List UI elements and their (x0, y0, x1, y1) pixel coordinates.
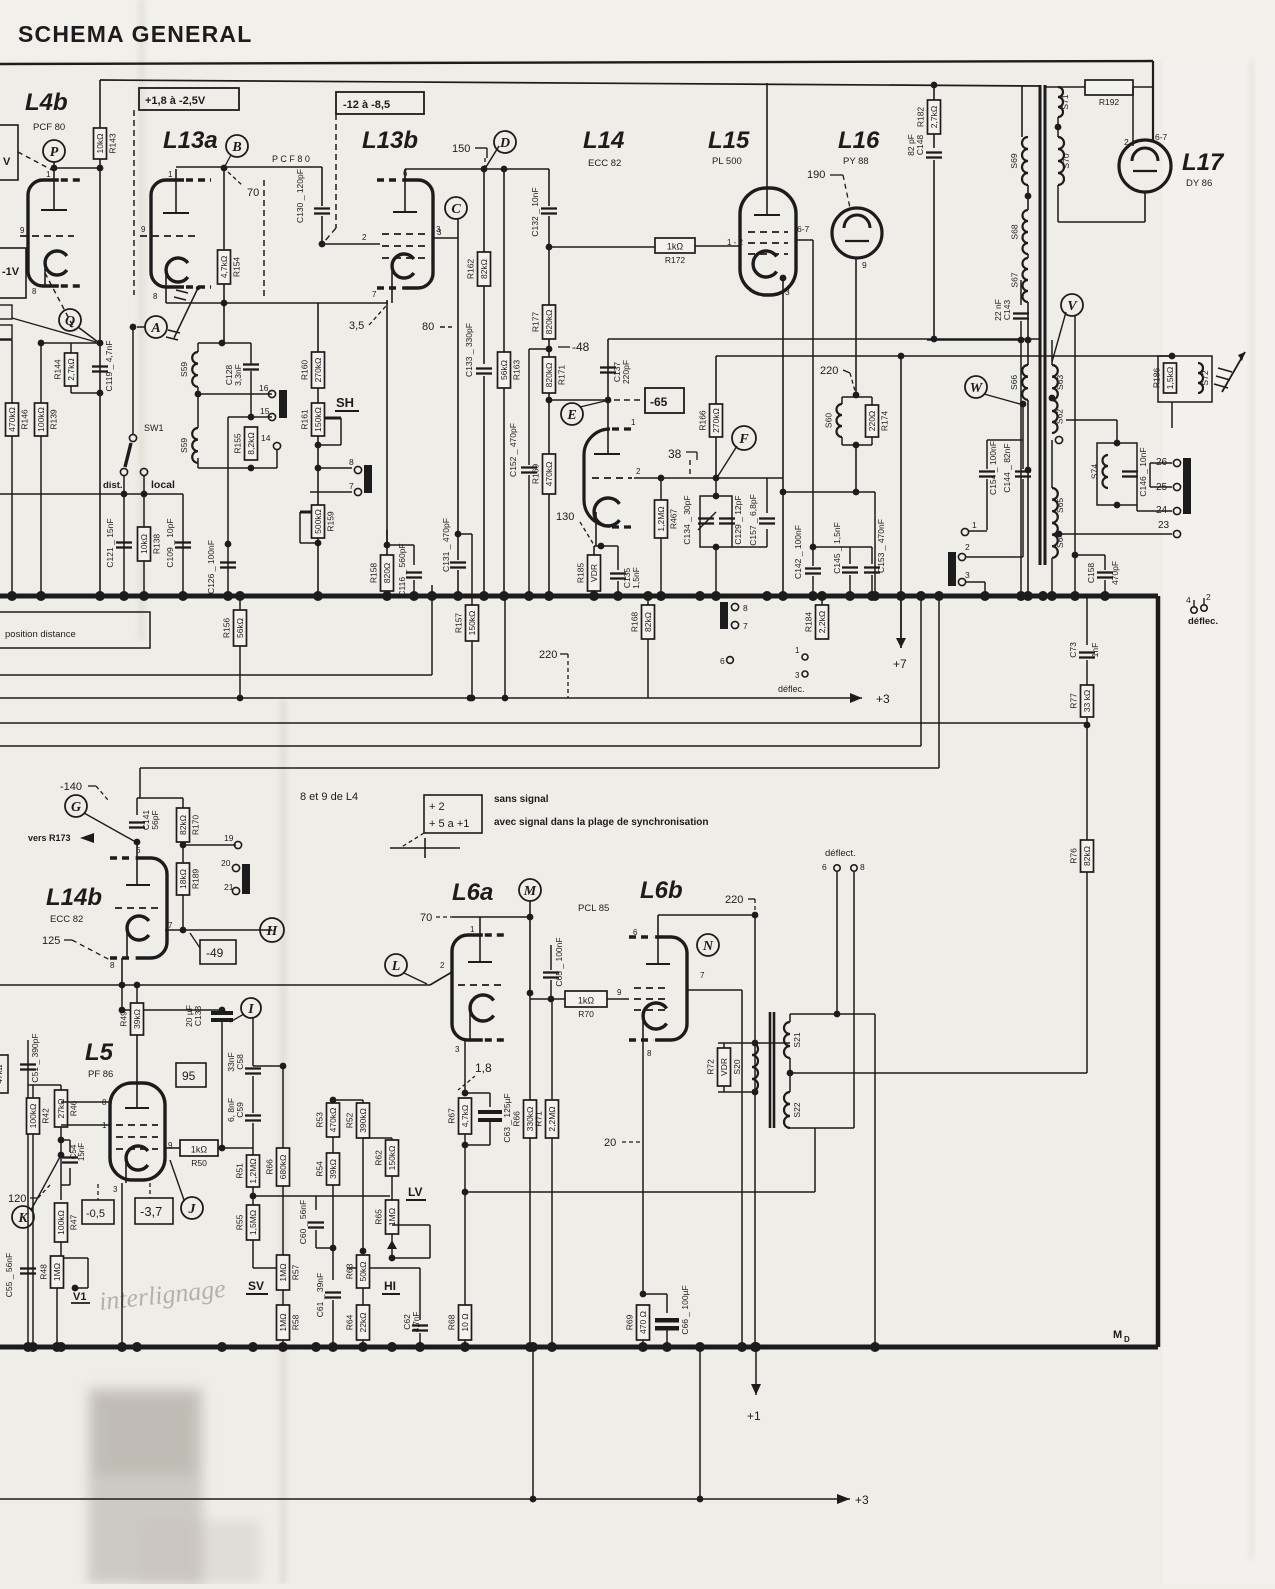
svg-text:C62: C62 (402, 1314, 412, 1330)
svg-text:R157: R157 (454, 613, 464, 634)
svg-text:6: 6 (720, 656, 725, 666)
svg-text:70: 70 (247, 187, 259, 199)
svg-text:P C F 8 0: P C F 8 0 (272, 154, 310, 164)
svg-text:1MΩ: 1MΩ (387, 1208, 397, 1226)
svg-text:R158: R158 (369, 563, 379, 584)
svg-text:R54: R54 (315, 1161, 325, 1177)
svg-text:L6b: L6b (640, 877, 683, 904)
svg-text:1,5kΩ: 1,5kΩ (1165, 367, 1175, 389)
svg-text:R42: R42 (41, 1108, 51, 1124)
svg-text:33 kΩ: 33 kΩ (1082, 690, 1092, 712)
svg-text:1MΩ: 1MΩ (52, 1263, 62, 1281)
svg-text:S22: S22 (792, 1102, 802, 1117)
svg-text:SCHEMA GENERAL: SCHEMA GENERAL (18, 21, 252, 47)
svg-text:10kΩ: 10kΩ (139, 534, 149, 554)
svg-text:3: 3 (795, 671, 800, 680)
svg-text:18kΩ: 18kΩ (178, 869, 188, 889)
svg-text:R71: R71 (534, 1111, 544, 1127)
svg-text:1: 1 (470, 925, 475, 934)
svg-text:S60: S60 (824, 413, 834, 428)
svg-text:220: 220 (539, 649, 557, 661)
svg-text:R159: R159 (326, 511, 336, 532)
svg-text:+ 5 a +1: + 5 a +1 (429, 818, 469, 830)
svg-text:39kΩ: 39kΩ (328, 1159, 338, 1179)
svg-text:S70: S70 (1061, 153, 1071, 168)
svg-text:C134 _ 30pF: C134 _ 30pF (682, 495, 692, 544)
svg-text:R163: R163 (512, 360, 522, 381)
svg-text:R72: R72 (706, 1059, 716, 1075)
svg-text:20: 20 (221, 858, 231, 868)
svg-text:SV: SV (248, 1279, 264, 1293)
svg-text:VDR: VDR (589, 564, 599, 582)
svg-text:1: 1 (46, 170, 51, 179)
svg-text:C132 _ 10nF: C132 _ 10nF (530, 187, 540, 236)
svg-text:20: 20 (604, 1137, 616, 1149)
svg-text:R52: R52 (345, 1112, 355, 1128)
svg-text:A: A (150, 321, 160, 336)
svg-text:R58: R58 (291, 1314, 301, 1330)
svg-text:Q: Q (65, 314, 75, 329)
svg-text:C157 _ 6,8pF: C157 _ 6,8pF (748, 494, 758, 546)
svg-text:150kΩ: 150kΩ (467, 611, 477, 636)
svg-text:10 Ω: 10 Ω (460, 1313, 470, 1331)
svg-text:9: 9 (141, 225, 146, 234)
svg-text:+3: +3 (876, 692, 890, 706)
svg-text:8: 8 (153, 292, 158, 301)
svg-text:+7: +7 (893, 657, 907, 671)
svg-text:16: 16 (259, 383, 269, 393)
svg-text:VDR: VDR (719, 1058, 729, 1076)
svg-text:6, 8nF: 6, 8nF (226, 1098, 236, 1122)
svg-text:39kΩ: 39kΩ (132, 1009, 142, 1029)
svg-text:C119 _ 4,7nF: C119 _ 4,7nF (104, 341, 114, 392)
svg-text:R186: R186 (1152, 368, 1162, 389)
svg-text:8 et 9 de L4: 8 et 9 de L4 (300, 791, 358, 803)
svg-text:500kΩ: 500kΩ (313, 509, 323, 534)
svg-text:2: 2 (636, 467, 641, 476)
svg-text:470 Ω: 470 Ω (638, 1311, 648, 1334)
svg-text:8: 8 (110, 961, 115, 970)
svg-text:C144 _ 82nF: C144 _ 82nF (1002, 443, 1012, 492)
svg-text:270kΩ: 270kΩ (313, 358, 323, 383)
svg-text:1: 1 (168, 170, 173, 179)
svg-text:C146 _ 10nF: C146 _ 10nF (1138, 447, 1148, 496)
svg-text:6: 6 (136, 846, 141, 855)
svg-text:S71: S71 (1060, 94, 1070, 109)
svg-text:3: 3 (437, 228, 442, 237)
svg-text:S67: S67 (1010, 272, 1020, 287)
svg-text:220Ω: 220Ω (867, 411, 877, 432)
svg-text:130: 130 (556, 511, 574, 523)
svg-text:L14b: L14b (46, 884, 102, 911)
svg-text:820kΩ: 820kΩ (544, 310, 554, 335)
svg-text:C63 _ 125µF: C63 _ 125µF (502, 1093, 512, 1142)
svg-text:S21: S21 (792, 1032, 802, 1047)
svg-text:125: 125 (42, 935, 60, 947)
svg-text:N: N (702, 939, 714, 954)
svg-text:23: 23 (1158, 520, 1170, 531)
svg-text:390kΩ: 390kΩ (358, 1108, 368, 1133)
svg-text:R55: R55 (235, 1214, 245, 1230)
svg-text:R146: R146 (20, 409, 30, 430)
svg-text:LV: LV (408, 1185, 422, 1199)
svg-text:C138: C138 (193, 1006, 203, 1027)
svg-text:C130 _ 120pF: C130 _ 120pF (295, 169, 305, 223)
svg-text:C73: C73 (1068, 642, 1078, 658)
svg-text:D: D (1124, 1335, 1130, 1344)
svg-text:déflec.: déflec. (1188, 616, 1218, 627)
svg-text:SW1: SW1 (144, 423, 164, 433)
svg-text:L5: L5 (85, 1039, 114, 1066)
svg-text:M: M (1113, 1329, 1122, 1341)
svg-text:F: F (738, 432, 749, 447)
svg-text:-65: -65 (650, 395, 668, 409)
svg-text:C116 _ 560pF: C116 _ 560pF (397, 543, 407, 596)
svg-text:C133 _ 330pF: C133 _ 330pF (464, 323, 474, 377)
svg-text:7: 7 (349, 481, 354, 491)
svg-text:R76: R76 (1069, 848, 1079, 864)
svg-text:4,7kΩ: 4,7kΩ (219, 256, 229, 278)
svg-text:C126 _ 100nF: C126 _ 100nF (206, 540, 216, 594)
svg-text:3: 3 (455, 1045, 460, 1054)
svg-text:1,8: 1,8 (475, 1061, 492, 1075)
svg-text:R144: R144 (53, 359, 63, 380)
svg-text:C65 _ 100nF: C65 _ 100nF (554, 937, 564, 986)
svg-text:C131 _ 470pF: C131 _ 470pF (441, 518, 451, 572)
svg-text:R185: R185 (576, 563, 586, 584)
svg-text:2: 2 (362, 233, 367, 242)
svg-text:150kΩ: 150kΩ (313, 407, 323, 432)
svg-text:R155: R155 (233, 433, 243, 454)
svg-text:3: 3 (785, 287, 790, 297)
svg-text:R70: R70 (578, 1009, 594, 1019)
svg-text:V: V (3, 156, 11, 168)
svg-text:C51 _ 390pF: C51 _ 390pF (30, 1033, 40, 1082)
svg-text:R46: R46 (69, 1100, 79, 1116)
svg-text:R69: R69 (625, 1314, 635, 1330)
svg-text:L14: L14 (583, 127, 624, 154)
svg-text:local: local (151, 479, 175, 491)
svg-text:B: B (231, 140, 241, 155)
svg-text:déflec.: déflec. (778, 684, 805, 694)
svg-text:R170: R170 (191, 815, 201, 836)
svg-text:R57: R57 (291, 1264, 301, 1280)
svg-text:-49: -49 (206, 946, 224, 960)
svg-text:470kΩ: 470kΩ (7, 407, 17, 432)
svg-text:14: 14 (261, 433, 271, 443)
svg-text:8: 8 (860, 862, 865, 872)
svg-text:2,7kΩ: 2,7kΩ (66, 358, 76, 380)
svg-text:8: 8 (743, 603, 748, 613)
svg-text:1MΩ: 1MΩ (278, 1313, 288, 1331)
svg-text:1: 1 (795, 646, 800, 655)
svg-text:C158: C158 (1086, 563, 1096, 584)
svg-text:1: 1 (631, 418, 636, 427)
svg-text:-3,7: -3,7 (140, 1204, 162, 1219)
svg-text:avec signal dans la plage: avec signal dans la plage de synchronisa… (494, 817, 709, 828)
svg-text:C152 _ 470pF: C152 _ 470pF (508, 423, 518, 477)
svg-text:100kΩ: 100kΩ (56, 1210, 66, 1235)
svg-text:220: 220 (820, 365, 838, 377)
svg-text:R67: R67 (447, 1108, 457, 1124)
svg-text:+3: +3 (855, 1493, 869, 1507)
svg-text:E: E (566, 408, 576, 423)
svg-text:C154 _ 100nF: C154 _ 100nF (988, 441, 998, 495)
svg-text:R49: R49 (119, 1011, 129, 1027)
svg-text:déflect.: déflect. (825, 848, 856, 859)
svg-text:S68: S68 (1010, 224, 1020, 239)
svg-text:C145 _ 1,5nF: C145 _ 1,5nF (832, 522, 842, 574)
svg-text:2,2MΩ: 2,2MΩ (547, 1106, 557, 1131)
svg-text:R189: R189 (191, 869, 201, 890)
svg-text:6-7: 6-7 (1155, 132, 1168, 142)
svg-text:470kΩ: 470kΩ (544, 462, 554, 487)
svg-text:S74: S74 (1090, 464, 1100, 479)
svg-text:33nF: 33nF (226, 1052, 236, 1071)
svg-text:R192: R192 (1099, 97, 1120, 107)
svg-text:100kΩ: 100kΩ (28, 1104, 38, 1129)
svg-text:1,2MΩ: 1,2MΩ (656, 506, 666, 531)
svg-text:C66 _ 100µF: C66 _ 100µF (680, 1285, 690, 1334)
svg-text:SH: SH (336, 395, 354, 410)
svg-text:6: 6 (822, 862, 827, 872)
svg-text:95: 95 (182, 1069, 196, 1083)
svg-text:S62: S62 (1055, 409, 1065, 424)
svg-text:-48: -48 (572, 340, 590, 354)
svg-text:7: 7 (168, 921, 173, 930)
svg-text:150: 150 (452, 143, 470, 155)
svg-text:R162: R162 (466, 259, 476, 280)
svg-text:R68: R68 (447, 1314, 457, 1330)
svg-text:2: 2 (440, 961, 445, 970)
svg-text:L15: L15 (708, 127, 750, 154)
svg-text:PCF 80: PCF 80 (33, 122, 65, 133)
svg-text:dist.: dist. (103, 480, 123, 491)
svg-text:1kΩ: 1kΩ (191, 1145, 208, 1155)
svg-text:-140: -140 (60, 781, 82, 793)
svg-text:W: W (970, 381, 984, 396)
svg-text:position distance: position distance (5, 629, 76, 640)
svg-text:15: 15 (260, 406, 270, 416)
svg-text:470pF: 470pF (1110, 561, 1120, 585)
svg-text:R65: R65 (374, 1209, 384, 1225)
svg-text:R467: R467 (669, 509, 679, 530)
svg-text:R51: R51 (235, 1163, 245, 1179)
svg-text:-12 à -8,5: -12 à -8,5 (343, 99, 390, 111)
svg-text:S65: S65 (1055, 498, 1065, 513)
svg-text:R172: R172 (665, 255, 686, 265)
svg-text:8: 8 (647, 1049, 652, 1058)
svg-text:-1V: -1V (2, 266, 20, 278)
svg-text:1kΩ: 1kΩ (578, 996, 595, 1006)
svg-text:2: 2 (965, 542, 970, 552)
svg-text:+1,8 à -2,5V: +1,8 à -2,5V (145, 95, 206, 107)
svg-text:38: 38 (668, 447, 682, 461)
svg-text:R50: R50 (191, 1158, 207, 1168)
svg-text:J: J (188, 1202, 197, 1217)
svg-text:1MΩ: 1MΩ (278, 1263, 288, 1281)
svg-text:R166: R166 (698, 410, 708, 431)
svg-text:120: 120 (8, 1193, 26, 1205)
svg-text:680kΩ: 680kΩ (278, 1155, 288, 1180)
svg-text:50kΩ: 50kΩ (358, 1261, 368, 1281)
svg-text:C121 _ 15nF: C121 _ 15nF (105, 518, 115, 567)
svg-text:220: 220 (725, 894, 743, 906)
svg-text:S69: S69 (1009, 153, 1019, 168)
svg-text:8: 8 (349, 457, 354, 467)
svg-text:PCL 85: PCL 85 (578, 903, 609, 914)
svg-text:S63: S63 (1055, 375, 1065, 390)
svg-text:R138: R138 (152, 534, 162, 555)
svg-text:PL 500: PL 500 (712, 156, 742, 167)
svg-text:L13a: L13a (163, 127, 218, 154)
svg-text:2: 2 (1124, 137, 1129, 147)
svg-text:C109 _ 10pF: C109 _ 10pF (165, 518, 175, 567)
svg-text:PF 86: PF 86 (88, 1069, 113, 1080)
svg-text:R143: R143 (108, 133, 118, 154)
svg-text:L: L (391, 959, 401, 974)
svg-text:ECC 82: ECC 82 (588, 158, 621, 169)
svg-text:DY 86: DY 86 (1186, 178, 1212, 189)
svg-text:R177: R177 (531, 312, 541, 333)
svg-text:+1: +1 (747, 1409, 761, 1423)
svg-text:6-7: 6-7 (797, 224, 810, 234)
svg-text:1,5MΩ: 1,5MΩ (248, 1210, 258, 1235)
svg-text:1nF: 1nF (1090, 643, 1100, 658)
svg-text:82kΩ: 82kΩ (643, 612, 653, 632)
svg-text:L6a: L6a (452, 879, 493, 906)
svg-text:ECC 82: ECC 82 (50, 914, 83, 925)
svg-text:R139: R139 (49, 409, 59, 430)
svg-text:C142 _ 100nF: C142 _ 100nF (793, 525, 803, 579)
svg-text:20 µF: 20 µF (184, 1005, 194, 1027)
svg-text:82kΩ: 82kΩ (178, 815, 188, 835)
svg-text:C129 _ 12pF: C129 _ 12pF (733, 495, 743, 544)
svg-text:PY 88: PY 88 (843, 156, 869, 167)
svg-text:R53: R53 (315, 1112, 325, 1128)
svg-text:4,7kΩ: 4,7kΩ (460, 1105, 470, 1127)
svg-text:S20: S20 (732, 1059, 742, 1074)
svg-text:L16: L16 (838, 127, 880, 154)
svg-text:82kΩ: 82kΩ (479, 259, 489, 279)
svg-text:150kΩ: 150kΩ (387, 1146, 397, 1171)
svg-text:C153 _ 470nF: C153 _ 470nF (876, 519, 886, 573)
svg-text:80: 80 (422, 321, 434, 333)
svg-text:HI: HI (384, 1279, 396, 1293)
svg-text:R184: R184 (804, 612, 814, 633)
svg-text:22kΩ: 22kΩ (358, 1312, 368, 1332)
svg-text:820kΩ: 820kΩ (544, 363, 554, 388)
svg-text:3: 3 (965, 570, 970, 580)
svg-text:-0,5: -0,5 (86, 1208, 105, 1220)
svg-text:P: P (50, 145, 59, 160)
svg-text:82kΩ: 82kΩ (1082, 846, 1092, 866)
svg-text:R154: R154 (232, 257, 242, 278)
svg-text:R62: R62 (374, 1150, 384, 1166)
svg-text:R48: R48 (39, 1264, 49, 1280)
svg-text:C60 _ 56nF: C60 _ 56nF (298, 1200, 308, 1244)
svg-text:100kΩ: 100kΩ (36, 407, 46, 432)
svg-text:15nF: 15nF (77, 1143, 86, 1161)
svg-text:4,7nF: 4,7nF (412, 1312, 421, 1333)
svg-text:2,2kΩ: 2,2kΩ (817, 611, 827, 633)
svg-text:56kΩ: 56kΩ (499, 360, 509, 380)
svg-text:R47: R47 (69, 1214, 79, 1230)
svg-text:3,3nF: 3,3nF (233, 364, 243, 386)
svg-text:2,7kΩ: 2,7kΩ (929, 106, 939, 128)
svg-text:C148: C148 (915, 135, 925, 156)
svg-text:D: D (499, 136, 510, 151)
svg-text:9: 9 (617, 988, 622, 997)
svg-text:R161: R161 (300, 409, 310, 430)
svg-text:7: 7 (372, 290, 377, 299)
svg-text:R156: R156 (222, 618, 232, 639)
svg-text:7: 7 (700, 971, 705, 980)
svg-text:M: M (523, 884, 537, 899)
svg-text:G: G (71, 800, 81, 815)
svg-text:+ 2: + 2 (429, 801, 445, 813)
svg-text:270kΩ: 270kΩ (711, 408, 721, 433)
svg-text:8: 8 (32, 287, 37, 296)
svg-text:22 nF: 22 nF (993, 299, 1003, 321)
svg-text:9: 9 (862, 260, 867, 270)
svg-text:10kΩ: 10kΩ (95, 133, 105, 153)
svg-text:R63: R63 (345, 1263, 355, 1279)
svg-text:4: 4 (1186, 595, 1191, 605)
svg-text:R66: R66 (265, 1159, 275, 1175)
svg-text:S59: S59 (179, 362, 189, 377)
svg-text:82 pF: 82 pF (906, 134, 916, 156)
svg-text:9: 9 (20, 226, 25, 235)
svg-text:8,2kΩ: 8,2kΩ (246, 432, 256, 454)
svg-text:1kΩ: 1kΩ (667, 242, 684, 252)
svg-text:C61 _ 39nF: C61 _ 39nF (315, 1273, 325, 1317)
svg-text:R168: R168 (630, 612, 640, 633)
svg-text:3: 3 (113, 1185, 118, 1194)
svg-text:R66: R66 (512, 1111, 522, 1127)
svg-text:H: H (266, 924, 279, 939)
svg-text:56pF: 56pF (150, 810, 160, 829)
svg-text:vers R173: vers R173 (28, 833, 71, 843)
svg-text:19: 19 (224, 833, 234, 843)
svg-text:470kΩ: 470kΩ (328, 1108, 338, 1133)
svg-text:S72: S72 (1200, 370, 1210, 385)
svg-text:I: I (247, 1002, 254, 1017)
svg-text:190: 190 (807, 169, 825, 181)
svg-text:1: 1 (972, 520, 977, 530)
svg-text:L4b: L4b (25, 89, 68, 116)
svg-text:C58: C58 (235, 1054, 245, 1070)
svg-text:V1: V1 (73, 1291, 86, 1303)
svg-text:C143: C143 (1002, 300, 1012, 321)
svg-text:R171: R171 (557, 365, 567, 386)
svg-text:47kΩ: 47kΩ (0, 1065, 4, 1084)
svg-text:2: 2 (1206, 592, 1211, 602)
svg-text:1,5nF: 1,5nF (631, 567, 641, 589)
svg-text:S66: S66 (1009, 375, 1019, 390)
svg-text:R182: R182 (916, 107, 926, 128)
svg-text:C: C (451, 202, 461, 217)
svg-text:R64: R64 (345, 1314, 355, 1330)
svg-text:7: 7 (743, 621, 748, 631)
svg-text:6: 6 (633, 928, 638, 937)
svg-text:L13b: L13b (362, 127, 418, 154)
svg-text:220pF: 220pF (621, 360, 631, 384)
svg-text:R174: R174 (880, 411, 890, 432)
svg-text:820Ω: 820Ω (382, 563, 392, 584)
svg-text:R77: R77 (1069, 693, 1079, 709)
svg-text:3,5: 3,5 (349, 320, 364, 332)
